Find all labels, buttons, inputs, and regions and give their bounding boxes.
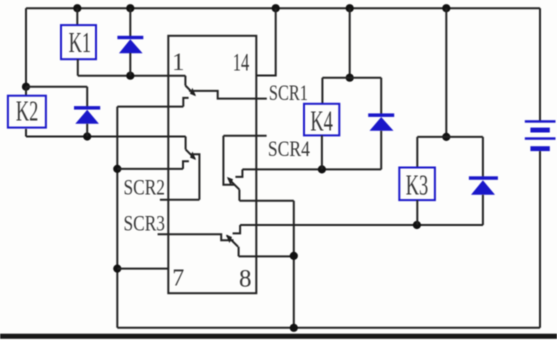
wire Q1 emitter to ground bus [117,106,183,108]
node K2 branch junction [22,83,30,91]
node K4 top tee [346,74,354,82]
node pin14 feed on rail [272,4,280,12]
node K4 feed on rail [346,4,354,12]
wire K1 bottom to transistor Q1 collector [78,75,186,77]
wire left drop from rail to K2 node [25,8,27,87]
wire SCR3 input stub to Q4 base [158,234,234,240]
wire SCR2 input stub [160,199,200,201]
wire Q4 collector to K3 bottom [240,224,483,226]
diode VD1 [117,8,143,76]
IC U1 body [168,36,256,293]
wire K4 top lead [321,78,323,104]
wire bus to Q2 emitter notch [117,168,183,170]
svg-text:8: 8 [239,265,252,292]
wire bottom ground rail [117,327,540,329]
node D2 bottom junction [83,132,91,140]
node bus to pin7 [113,265,121,273]
relay K3 [399,168,435,202]
wire center ground drop [293,201,295,328]
diode VD2 [74,87,100,137]
wire pin 14 to rail drop [256,8,275,75]
wire SCR4 stub to Q3 base [223,135,266,137]
wire top positive rail [26,7,540,9]
node K4 bottom junction [318,165,326,173]
wire right drop from rail to battery [539,8,541,121]
wire K4 top bar [322,77,381,79]
wire Q3 emitter to ground drop [239,200,293,202]
diode VD4 [368,78,394,170]
wire K2 bottom lead [25,129,27,137]
svg-text:14: 14 [233,50,250,77]
svg-text:K2: K2 [16,96,39,128]
node K3 top tee [442,133,450,141]
diode VD3 [469,137,498,225]
svg-text:SCR3: SCR3 [124,210,166,235]
wire K3 top lead [416,137,418,168]
node K3 feed on rail [442,4,450,12]
transistor Q4 [226,225,240,256]
wire K2 top lead [25,87,27,96]
transistor Q2 [183,137,199,200]
relay K4 [304,104,339,138]
svg-text:K1: K1 [69,27,92,59]
wire K2 node to D2 top [26,86,87,88]
wire K4 bottom lead [321,135,323,169]
svg-text:7: 7 [172,266,184,292]
node D1 top on rail [126,4,134,12]
page bottom black bar [0,334,557,339]
node K1 top on rail [73,4,81,12]
svg-text:SCR1: SCR1 [269,80,308,105]
svg-text:SCR4: SCR4 [268,136,310,161]
svg-text:1: 1 [172,49,185,76]
wire left ground bus [116,107,118,328]
svg-text:SCR2: SCR2 [124,174,166,199]
wire battery negative to bottom rail [539,151,541,328]
node Q4 emitter junction [290,252,298,260]
node bus to Q2 emitter [113,165,121,173]
wire Q3 collector to K4 bottom [242,168,381,170]
relay K2 [8,96,46,128]
battery GB [525,120,556,151]
transistor Q1 [183,76,266,107]
svg-text:K3: K3 [406,170,429,202]
wire K1 top lead [76,8,78,25]
wire Q4 emitter to ground drop [239,255,294,257]
wire K2 bottom to transistor Q2 collector [26,136,186,138]
svg-text:K4: K4 [310,105,333,137]
node D1 bottom junction [126,72,134,80]
transistor Q3 [223,136,242,201]
node ground rail junction [290,324,298,332]
wire K3 feed drop [445,8,447,137]
node K3 bottom junction [413,221,421,229]
wire K1 bottom lead [77,59,79,75]
wire K4 feed drop [349,8,351,78]
wire bus to pin 7 [117,268,168,270]
wire K3 top bar [417,136,483,138]
relay K1 [61,25,96,59]
wire K3 bottom lead [416,200,418,225]
